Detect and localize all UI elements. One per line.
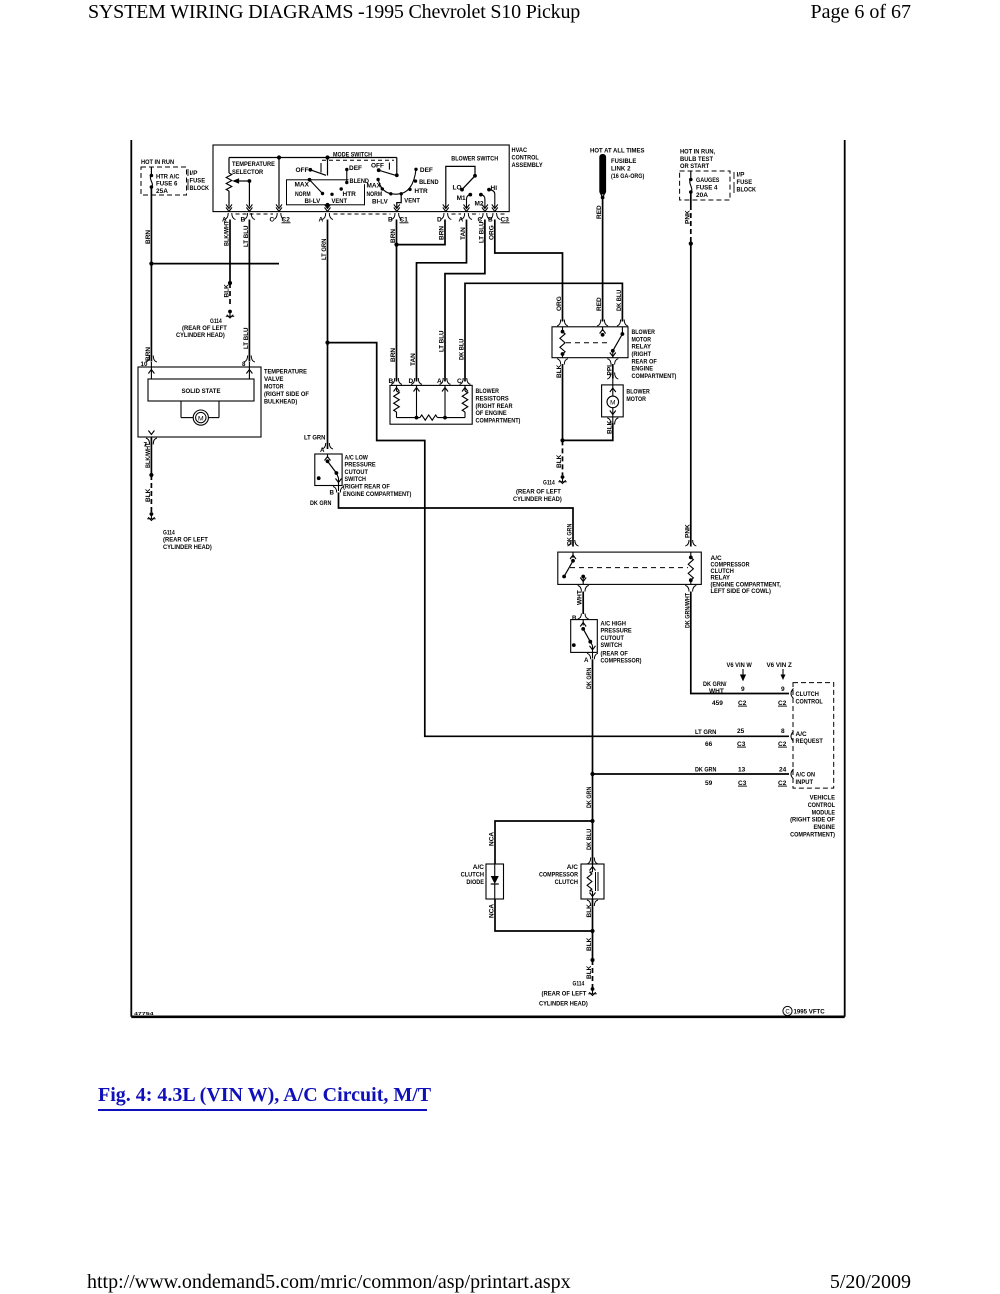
wire BLK blower motor to junction	[563, 423, 613, 440]
svg-text:DK GRN: DK GRN	[586, 667, 593, 689]
solid state box	[148, 379, 254, 401]
A/C compressor clutch relay box	[568, 540, 579, 546]
svg-text:ASSEMBLY: ASSEMBLY	[512, 162, 544, 169]
mode switch right rotary arc	[378, 169, 416, 194]
svg-text:HVAC: HVAC	[512, 147, 528, 154]
wire BLK dashed to ground bottom	[592, 960, 594, 988]
svg-text:RELAY: RELAY	[632, 344, 652, 351]
svg-text:BLOWER SWITCH: BLOWER SWITCH	[451, 156, 498, 163]
A/C clutch diode box	[486, 864, 504, 899]
svg-text:BLK: BLK	[556, 364, 563, 378]
wire BLK dashed to ground G114 mid	[562, 440, 564, 475]
svg-text:BULB TEST: BULB TEST	[680, 156, 713, 163]
svg-text:DK GRN: DK GRN	[567, 523, 574, 545]
svg-text:HOT IN RUN: HOT IN RUN	[141, 159, 174, 166]
svg-text:M: M	[610, 399, 615, 406]
connector C3 pins	[440, 213, 451, 220]
svg-text:SELECTOR: SELECTOR	[232, 169, 263, 176]
svg-text:B: B	[572, 615, 577, 622]
wire LT GRN branch to A/C request	[328, 343, 790, 737]
hvac internal feed wire	[229, 157, 397, 159]
svg-text:DK GRN: DK GRN	[310, 500, 332, 507]
A/C compressor clutch relay pins bottom	[578, 585, 589, 591]
svg-text:CYLINDER HEAD): CYLINDER HEAD)	[513, 496, 562, 503]
svg-text:20A: 20A	[696, 192, 708, 199]
svg-text:A/C: A/C	[567, 864, 579, 871]
wire PPL relay to blower motor	[612, 364, 614, 379]
svg-text:BLK: BLK	[586, 965, 593, 979]
svg-text:ENGINE: ENGINE	[814, 824, 836, 831]
svg-text:D: D	[409, 378, 414, 385]
blower switch contact M1	[468, 193, 472, 197]
mode switch right feed	[396, 158, 398, 176]
blower resistor middle element	[420, 415, 437, 420]
svg-text:BLK: BLK	[586, 937, 593, 951]
temperature selector wiper	[234, 179, 239, 183]
svg-text:HTR: HTR	[414, 188, 428, 195]
svg-text:VENT: VENT	[332, 198, 348, 205]
svg-text:A/C LOW: A/C LOW	[345, 454, 369, 461]
svg-text:A: A	[459, 217, 464, 224]
svg-text:C: C	[457, 378, 462, 385]
blower resistors pins	[391, 378, 402, 384]
svg-text:SOLID STATE: SOLID STATE	[182, 388, 221, 395]
svg-text:(RIGHT: (RIGHT	[632, 351, 652, 358]
svg-text:MAX: MAX	[295, 181, 310, 188]
wire LT BLU pin C C3	[445, 220, 485, 382]
svg-text:BRN: BRN	[145, 347, 152, 361]
svg-text:PRESSURE: PRESSURE	[601, 628, 633, 635]
wire BLK compressor clutch down	[592, 899, 594, 960]
svg-text:DK GRN: DK GRN	[695, 767, 717, 774]
svg-text:I/P: I/P	[190, 170, 199, 177]
wire DK GRN/WHT clutch control	[691, 592, 789, 694]
svg-text:MOTOR: MOTOR	[626, 396, 646, 403]
svg-text:PPL: PPL	[606, 363, 613, 376]
svg-text:66: 66	[705, 741, 713, 748]
svg-text:G114: G114	[163, 529, 175, 536]
svg-text:BLEND: BLEND	[419, 179, 439, 186]
wire BRN pin B C1	[396, 220, 398, 382]
mode switch right output pin	[397, 194, 401, 208]
svg-text:PRESSURE: PRESSURE	[345, 462, 377, 469]
svg-text:1995 VFTC: 1995 VFTC	[794, 1009, 826, 1016]
diagram border right	[844, 140, 846, 1017]
svg-text:G114: G114	[573, 981, 585, 988]
svg-text:A: A	[437, 378, 442, 385]
svg-text:RED: RED	[596, 297, 603, 311]
svg-text:OFF: OFF	[371, 163, 384, 170]
svg-text:CYLINDER HEAD): CYLINDER HEAD)	[163, 544, 212, 551]
svg-text:M: M	[198, 415, 204, 422]
svg-text:MOTOR: MOTOR	[632, 336, 652, 343]
blower switch arm LO	[473, 174, 477, 178]
svg-text:COMPARTMENT): COMPARTMENT)	[632, 373, 677, 380]
svg-text:CUTOUT: CUTOUT	[601, 635, 624, 642]
svg-text:ORG: ORG	[556, 296, 563, 311]
ground G114 mid	[561, 475, 565, 479]
svg-text:NORM: NORM	[367, 191, 383, 198]
A/C compressor clutch relay coil	[690, 552, 692, 557]
A/C compressor clutch box	[587, 858, 598, 865]
svg-text:DK GRN: DK GRN	[586, 786, 593, 808]
wire BLK dashed to ground	[229, 283, 231, 305]
svg-text:A/C ON: A/C ON	[796, 772, 816, 779]
svg-text:(RIGHT REAR: (RIGHT REAR	[476, 403, 513, 410]
svg-text:CONTROL: CONTROL	[796, 699, 823, 706]
svg-text:FUSE 4: FUSE 4	[696, 185, 718, 192]
svg-text:DK BLU: DK BLU	[586, 828, 593, 850]
temperature valve motor pin 7	[148, 431, 154, 435]
svg-text:(REAR OF LEFT: (REAR OF LEFT	[182, 325, 227, 332]
svg-text:G114: G114	[543, 479, 555, 486]
svg-text:REAR OF: REAR OF	[632, 358, 657, 365]
connector C1 pins	[322, 213, 333, 220]
svg-text:LT BLU: LT BLU	[243, 327, 250, 349]
wire WHT relay to high pressure switch	[582, 592, 584, 615]
svg-text:WHT: WHT	[709, 688, 724, 695]
connector C3 dashed body	[452, 213, 462, 215]
mode switch left contacts	[330, 193, 333, 196]
svg-text:BLOWER: BLOWER	[626, 388, 650, 395]
blower motor relay coil	[562, 327, 564, 332]
svg-text:MOTOR: MOTOR	[264, 384, 284, 391]
HVAC control assembly box	[213, 145, 509, 212]
temperature valve motor M	[180, 401, 182, 418]
blower resistor element left	[394, 391, 400, 412]
svg-text:A: A	[320, 447, 325, 454]
svg-text:A: A	[319, 217, 324, 224]
svg-text:BRN: BRN	[390, 348, 397, 362]
svg-text:MODULE: MODULE	[812, 809, 836, 816]
blower motor relay box	[552, 327, 628, 358]
blower motor box	[607, 373, 618, 380]
svg-text:BLK: BLK	[586, 904, 593, 918]
svg-text:INPUT: INPUT	[796, 779, 814, 786]
svg-text:459: 459	[712, 700, 723, 707]
blower motor M circle	[607, 396, 619, 408]
svg-text:BRN: BRN	[145, 230, 152, 244]
svg-text:FUSE 6: FUSE 6	[156, 181, 178, 188]
wire DK GRN high pressure switch down	[592, 659, 594, 864]
svg-text:HI: HI	[491, 185, 498, 192]
svg-text:BLOCK: BLOCK	[190, 185, 210, 192]
svg-text:CONTROL: CONTROL	[512, 154, 539, 161]
mode switch dashed boundary	[322, 159, 394, 161]
temperature valve motor pins top	[146, 356, 157, 363]
svg-text:COMPRESSOR): COMPRESSOR)	[601, 658, 642, 665]
svg-text:RELAY: RELAY	[711, 575, 731, 582]
svg-text:MAX: MAX	[367, 183, 382, 190]
svg-text:GAUGES: GAUGES	[696, 177, 720, 184]
svg-text:BRN: BRN	[439, 226, 446, 240]
blower switch frame	[446, 166, 475, 207]
svg-text:OFF: OFF	[296, 167, 309, 174]
svg-text:24: 24	[779, 767, 787, 774]
VCM pin arcs	[791, 689, 794, 699]
svg-text:BRN: BRN	[390, 229, 397, 243]
blower motor relay dashed link	[566, 342, 609, 344]
svg-text:(REAR OF LEFT: (REAR OF LEFT	[163, 537, 208, 544]
svg-text:V6 VIN Z: V6 VIN Z	[767, 662, 792, 669]
svg-text:DEF: DEF	[420, 167, 433, 174]
svg-text:RED: RED	[596, 205, 603, 219]
svg-text:SWITCH: SWITCH	[601, 642, 623, 649]
wire BRN from fuse 6	[150, 187, 152, 362]
wire LT BLU pin B	[248, 220, 250, 362]
svg-text:PNK: PNK	[684, 210, 691, 224]
svg-text:TEMPERATURE: TEMPERATURE	[232, 161, 275, 168]
svg-text:8: 8	[242, 361, 246, 368]
svg-text:LINK 2: LINK 2	[611, 165, 631, 172]
temperature selector resistor	[226, 173, 232, 191]
mode switch left wiper arm	[308, 178, 312, 182]
svg-text:REQUEST: REQUEST	[796, 738, 823, 745]
svg-text:(16 GA-ORG): (16 GA-ORG)	[611, 173, 644, 180]
svg-text:DK BLU: DK BLU	[459, 338, 466, 360]
svg-text:C: C	[270, 217, 275, 224]
svg-text:B: B	[389, 378, 394, 385]
svg-text:WHT: WHT	[577, 590, 584, 605]
svg-text:A: A	[584, 657, 589, 664]
A/C compressor clutch relay switch	[570, 555, 576, 559]
fuse 4 symbol	[690, 171, 692, 179]
wire LT GRN pin A C1	[327, 220, 329, 450]
svg-text:LT GRN: LT GRN	[304, 435, 326, 442]
A/C low pressure cutout switch box	[322, 443, 333, 449]
svg-text:LT GRN: LT GRN	[695, 729, 717, 736]
blower motor relay pins top	[557, 320, 568, 327]
temperature valve motor box	[138, 367, 261, 437]
svg-text:BULKHEAD): BULKHEAD)	[264, 399, 297, 406]
svg-text:LT GRN: LT GRN	[321, 238, 328, 260]
svg-text:8: 8	[781, 728, 785, 735]
svg-text:HTR A/C: HTR A/C	[156, 174, 180, 181]
svg-text:CLUTCH: CLUTCH	[461, 871, 485, 878]
mode switch left output pin	[326, 203, 330, 207]
svg-text:HOT AT ALL TIMES: HOT AT ALL TIMES	[590, 147, 645, 154]
svg-text:VENT: VENT	[404, 198, 420, 205]
svg-text:(REAR OF LEFT: (REAR OF LEFT	[542, 991, 587, 998]
svg-text:OF ENGINE: OF ENGINE	[476, 410, 508, 417]
svg-text:BLOWER: BLOWER	[632, 329, 656, 336]
svg-text:CYLINDER HEAD): CYLINDER HEAD)	[539, 1001, 588, 1008]
svg-text:ORG: ORG	[488, 225, 495, 240]
svg-text:TAN: TAN	[460, 227, 467, 240]
svg-text:BI-LV: BI-LV	[305, 198, 321, 205]
diagram border bottom (thick)	[131, 1015, 844, 1018]
svg-text:LO: LO	[453, 185, 462, 192]
svg-text:CLUTCH: CLUTCH	[555, 879, 579, 886]
svg-text:BLK: BLK	[606, 420, 613, 434]
svg-text:COMPARTMENT): COMPARTMENT)	[790, 832, 835, 839]
svg-text:BI-LV: BI-LV	[372, 198, 388, 205]
svg-text:9: 9	[781, 686, 785, 693]
svg-text:DIODE: DIODE	[466, 879, 484, 886]
footer date	[830, 1271, 911, 1294]
wire DK GRN A/C on input	[593, 773, 790, 775]
wire PNK fuse 4 to relay coil	[690, 192, 692, 205]
svg-text:CUTOUT: CUTOUT	[345, 469, 368, 476]
wire BLK dashed to ground lower left	[150, 475, 152, 512]
diagram border left	[130, 140, 132, 1017]
svg-text:RESISTORS: RESISTORS	[476, 396, 510, 403]
svg-text:OR START: OR START	[680, 163, 709, 170]
svg-text:(RIGHT REAR OF: (RIGHT REAR OF	[343, 484, 390, 491]
svg-text:B: B	[388, 217, 393, 224]
svg-text:47754: 47754	[134, 1011, 155, 1016]
svg-text:A/C: A/C	[473, 864, 485, 871]
fuse 6 symbol	[150, 167, 152, 175]
svg-text:DK GRN/WHT: DK GRN/WHT	[684, 593, 691, 628]
ground G114 upper left	[228, 310, 232, 314]
svg-text:BLK: BLK	[556, 454, 563, 468]
svg-text:M2: M2	[475, 200, 484, 207]
connector C1 dashed body	[334, 213, 391, 215]
blower resistor bottom bus	[397, 417, 421, 419]
wire pin C feed	[278, 158, 280, 207]
svg-text:(RIGHT SIDE OF: (RIGHT SIDE OF	[264, 391, 309, 398]
svg-text:FUSE: FUSE	[737, 179, 753, 186]
temp selector pin arrows	[226, 204, 232, 211]
wire ORG pin B C3	[495, 220, 563, 322]
svg-text:BLOWER: BLOWER	[476, 388, 500, 395]
svg-text:COMPRESSOR: COMPRESSOR	[539, 871, 578, 878]
wire RED fusible link to relay	[602, 198, 604, 322]
mode switch left DEF/BLEND contacts	[349, 177, 374, 184]
svg-text:A/C: A/C	[796, 731, 808, 738]
svg-text:VEHICLE: VEHICLE	[810, 795, 836, 802]
page number	[810, 1, 911, 24]
connector C2 pins	[225, 213, 236, 220]
svg-text:C: C	[785, 1009, 790, 1015]
svg-text:HOT IN RUN,: HOT IN RUN,	[680, 149, 715, 156]
svg-text:(RIGHT SIDE OF: (RIGHT SIDE OF	[790, 817, 835, 824]
svg-text:(REAR OF: (REAR OF	[601, 650, 628, 657]
svg-text:BLOCK: BLOCK	[737, 186, 757, 193]
ground G114 bottom	[591, 987, 595, 991]
svg-text:10: 10	[141, 361, 148, 368]
svg-text:(REAR OF LEFT: (REAR OF LEFT	[516, 489, 561, 496]
svg-text:BLK: BLK	[145, 488, 152, 502]
svg-text:CLUTCH: CLUTCH	[796, 691, 820, 698]
svg-text:BLK: BLK	[224, 284, 231, 298]
svg-text:DEF: DEF	[349, 165, 362, 172]
svg-text:TAN: TAN	[410, 353, 417, 366]
svg-text:13: 13	[738, 767, 746, 774]
figure caption	[98, 1084, 431, 1107]
svg-text:V6 VIN W: V6 VIN W	[727, 662, 753, 669]
svg-text:TEMPERATURE: TEMPERATURE	[264, 369, 307, 376]
svg-text:NCA: NCA	[489, 904, 496, 918]
svg-text:A/C HIGH: A/C HIGH	[601, 621, 627, 628]
svg-text:9: 9	[741, 686, 745, 693]
svg-text:HTR: HTR	[343, 191, 357, 198]
I/P fuse block dashed box	[141, 167, 187, 195]
svg-text:LT BLU: LT BLU	[243, 225, 250, 247]
gauges fuse dashed box	[680, 171, 730, 200]
A/C compressor clutch relay dashed link	[570, 567, 688, 569]
wire NCA branch to diode	[495, 821, 593, 864]
svg-text:LT BLU: LT BLU	[439, 330, 446, 352]
svg-text:DK GRN/: DK GRN/	[703, 681, 727, 688]
svg-text:PNK: PNK	[684, 524, 691, 538]
svg-text:CYLINDER HEAD): CYLINDER HEAD)	[176, 332, 225, 339]
svg-text:COMPARTMENT): COMPARTMENT)	[476, 417, 521, 424]
wire BLK/WHT pin A	[229, 220, 231, 284]
svg-text:SWITCH: SWITCH	[345, 476, 367, 483]
svg-text:NCA: NCA	[489, 832, 496, 846]
vehicle control module dashed box	[793, 683, 834, 789]
wire BRN branch to pin C	[151, 263, 279, 265]
svg-text:25: 25	[737, 728, 745, 735]
blower resistor element right	[462, 391, 468, 412]
svg-text:VALVE: VALVE	[264, 376, 284, 383]
header title	[88, 1, 580, 24]
wire BRN pin D join	[397, 220, 446, 245]
svg-text:FUSE: FUSE	[190, 177, 206, 184]
blower motor relay switch	[600, 330, 606, 334]
svg-text:B: B	[488, 217, 493, 224]
wire NCA diode to junction	[495, 899, 593, 931]
wire TAN pin A C3	[417, 220, 467, 382]
svg-text:25A: 25A	[156, 188, 168, 195]
svg-text:CONTROL: CONTROL	[808, 802, 835, 809]
svg-text:D: D	[437, 217, 442, 224]
svg-text:M1: M1	[457, 195, 466, 202]
blower switch contact M2	[479, 193, 483, 197]
svg-text:DK BLU: DK BLU	[616, 289, 623, 311]
copyright logo	[783, 1006, 792, 1015]
blower motor relay pins bottom	[557, 359, 568, 365]
svg-text:ENGINE: ENGINE	[632, 366, 654, 373]
svg-text:59: 59	[705, 780, 713, 787]
svg-text:I/P: I/P	[737, 172, 746, 179]
svg-text:FUSIBLE: FUSIBLE	[611, 158, 637, 165]
svg-text:LEFT SIDE OF COWL): LEFT SIDE OF COWL)	[711, 588, 771, 595]
svg-text:BLK/WHT: BLK/WHT	[145, 443, 152, 468]
blower switch contact HI	[487, 188, 491, 192]
mode switch left position box	[287, 180, 365, 205]
svg-text:LT BLU: LT BLU	[478, 221, 485, 243]
footer url	[87, 1271, 571, 1294]
svg-text:ENGINE COMPARTMENT): ENGINE COMPARTMENT)	[343, 491, 411, 498]
svg-text:B: B	[330, 490, 335, 497]
wire BLK relay to junction	[562, 364, 564, 440]
svg-text:G114: G114	[210, 318, 222, 325]
blower resistors box	[390, 385, 472, 424]
ground G114 lower left	[150, 512, 154, 516]
wire DK BLU resistor C to relay	[465, 283, 622, 381]
svg-text:B: B	[241, 217, 246, 224]
svg-text:BLK/WHT: BLK/WHT	[224, 221, 231, 246]
fusible link 2	[599, 154, 606, 195]
